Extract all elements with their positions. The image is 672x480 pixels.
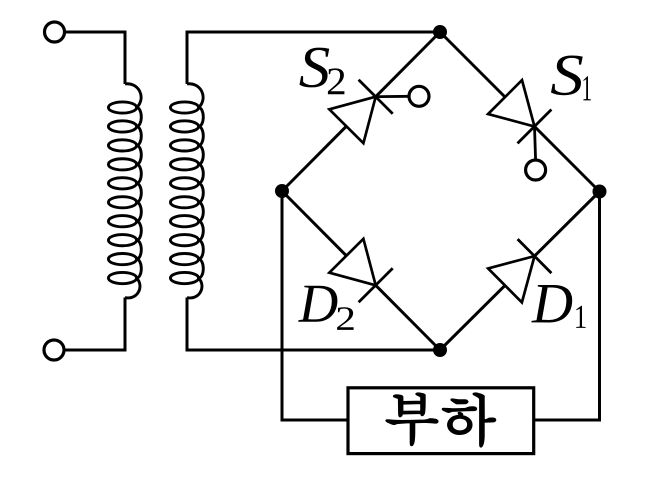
junction node right (DC out) (593, 185, 607, 199)
inductor L2 (transformer winding) (170, 84, 203, 298)
wire: thyristor S1 cathode to node (535, 127, 600, 192)
thyristor S1 triangle (488, 80, 534, 126)
diode D2 triangle (329, 239, 375, 285)
wire: winding L1 bottom to primary bottom input (66, 298, 126, 351)
label D1 main (531, 285, 572, 323)
thyristor S2 cathode bar (359, 80, 393, 114)
wire: right node down to load box (535, 192, 600, 421)
thyristor S1 gate lead (535, 127, 536, 161)
junction node top (AC in) (433, 25, 447, 39)
label S2 main (300, 48, 330, 88)
wire: winding L2 top to bridge top node (187, 32, 440, 84)
load box (348, 388, 534, 454)
thyristor S2 gate lead (376, 95, 409, 98)
diode D1 triangle (488, 256, 534, 302)
wire: diode D2 cathode to node (376, 285, 440, 350)
wire: diode D1 cathode to node (535, 192, 600, 257)
junction node left (DC out) (275, 184, 289, 198)
thyristor S2 gate terminal circle (409, 86, 429, 106)
label 부 (load text) (386, 393, 437, 445)
wire: left node down to load box (282, 191, 347, 420)
label S2 subscript (328, 68, 345, 94)
wire: node to thyristor S1 anode (440, 32, 505, 97)
wire: thyristor S2 cathode to node (376, 32, 440, 97)
thyristor S2 triangle (329, 97, 375, 144)
terminal: primary top input (45, 22, 65, 42)
label D2 main (298, 286, 337, 322)
thyristor S1 cathode bar (518, 110, 552, 144)
wire: node to diode D2 anode (282, 191, 346, 256)
label D1 subscript (576, 306, 585, 328)
label 하 (load text) (443, 393, 496, 446)
wire: winding L2 bottom to bridge bottom node (187, 298, 440, 351)
label S1 subscript (583, 76, 590, 100)
diode D1 cathode bar (518, 239, 552, 273)
terminal: primary bottom input (44, 340, 64, 360)
label D2 subscript (337, 307, 354, 330)
thyristor S1 gate terminal circle (526, 160, 546, 180)
wire: primary top input to winding L1 (66, 32, 125, 84)
wire: node to thyristor S2 anode (282, 126, 346, 191)
label S1 main (551, 56, 583, 96)
inductor L1 (transformer winding) (108, 84, 141, 298)
diode D2 cathode bar (359, 268, 393, 302)
wire: node to diode D1 anode (440, 285, 505, 350)
junction node bottom (AC in) (433, 343, 447, 357)
